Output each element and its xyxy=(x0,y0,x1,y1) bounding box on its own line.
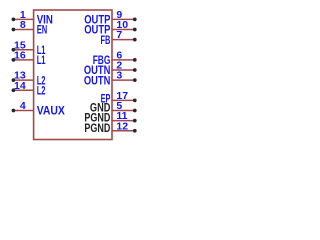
pin 7 (FB) lead wire + terminal dot xyxy=(112,38,137,42)
pin 3 (OUTN) lead wire + terminal dot xyxy=(112,78,137,82)
pin 1 (VIN) lead wire + terminal dot xyxy=(12,18,34,22)
pin 10 (OUTP) lead wire + terminal dot xyxy=(112,28,137,32)
pin 5 (GND) lead wire + terminal dot xyxy=(112,109,137,113)
pin 8 (EN) lead wire + terminal dot xyxy=(12,28,34,32)
pin 2 (OUTN) lead wire + terminal dot xyxy=(112,68,137,72)
pin 16 (L1) lead wire + terminal dot xyxy=(12,58,34,62)
svg-text:L1: L1 xyxy=(37,55,46,67)
svg-text:EN: EN xyxy=(37,25,48,37)
svg-text:4: 4 xyxy=(20,100,26,112)
pin 15 (L1) lead wire + terminal dot xyxy=(12,48,34,52)
pin 14 (L2) lead wire + terminal dot xyxy=(12,88,34,92)
svg-text:8: 8 xyxy=(20,19,26,31)
pin 6 (FBG) lead wire + terminal dot xyxy=(112,58,137,62)
svg-text:12: 12 xyxy=(116,120,128,132)
pin 4 (VAUX) lead wire + terminal dot xyxy=(12,109,34,113)
svg-text:VAUX: VAUX xyxy=(37,106,65,118)
svg-text:OUTN: OUTN xyxy=(84,75,111,87)
svg-text:14: 14 xyxy=(14,80,26,92)
pin 12 (PGND) lead wire + terminal dot xyxy=(112,129,137,133)
pin 11 (PGND) lead wire + terminal dot xyxy=(112,119,137,123)
svg-text:16: 16 xyxy=(14,49,26,61)
IC body U1 xyxy=(34,10,112,140)
pin 17 (EP) lead wire + terminal dot xyxy=(112,99,137,103)
svg-text:3: 3 xyxy=(116,70,122,82)
svg-text:7: 7 xyxy=(116,29,122,41)
pin 9 (OUTP) lead wire + terminal dot xyxy=(112,18,137,22)
svg-text:FB: FB xyxy=(101,35,111,47)
svg-text:PGND: PGND xyxy=(84,123,110,135)
svg-text:L2: L2 xyxy=(37,85,46,97)
pin 13 (L2) lead wire + terminal dot xyxy=(12,78,34,82)
